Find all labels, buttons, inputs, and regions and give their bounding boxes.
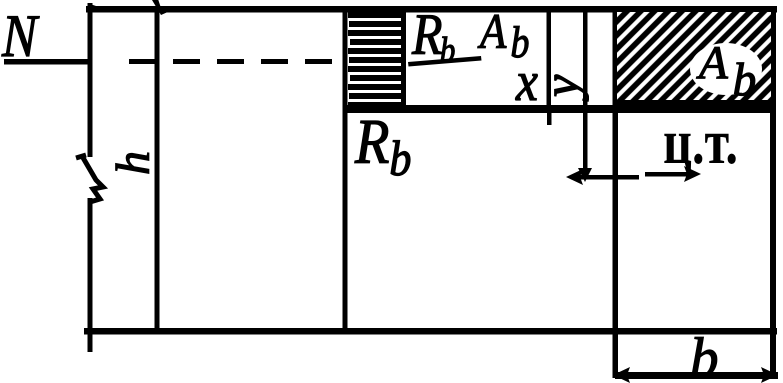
neutral axis dashed line <box>129 59 345 64</box>
svg-text:h: h <box>107 151 160 175</box>
down arrow at bottom of y dimension line <box>578 168 592 182</box>
right edge <box>770 9 776 379</box>
b dimension right arrow <box>761 367 778 383</box>
b dimension left arrow <box>613 367 630 383</box>
big label Rb below stress block <box>354 107 411 187</box>
neutral axis solid segment <box>4 59 92 65</box>
vertical line at x=585 with lower dimension extension <box>583 9 588 176</box>
vertical line at x=549 <box>547 9 552 110</box>
bottom edge <box>84 328 777 335</box>
barb at top of x=157 line <box>152 0 170 15</box>
dimension arrow line (left, with left arrowhead) <box>571 175 639 180</box>
label x <box>515 51 538 113</box>
left edge / h dimension line <box>88 3 93 157</box>
underline under Rb <box>408 56 482 67</box>
label h (rotated) <box>107 151 160 175</box>
label y (rotated) <box>533 74 589 102</box>
short stub of x=549 line below mid line <box>547 113 552 125</box>
horizontal-hatched stress block Rb <box>348 12 404 108</box>
eraser for y tail <box>589 60 611 104</box>
top edge <box>86 6 777 13</box>
inner vertical line at x=157 <box>155 9 160 331</box>
vertical line at x=615 (full height, edge of right zone) <box>613 9 619 378</box>
svg-text:y: y <box>533 74 589 102</box>
dimension arrow line (right, with right arrowhead, under ц.т.) <box>645 172 695 177</box>
mid horizontal line (bottom of stress diagram) <box>345 105 775 113</box>
h top arrow barb <box>90 4 102 11</box>
white halo behind Ab label <box>690 43 762 95</box>
right edge of hatched stress block <box>401 9 406 110</box>
svg-text:ц.т.: ц.т. <box>663 106 738 177</box>
inner vertical line at x=345 <box>343 9 348 331</box>
bottom edge of hatched area <box>613 100 775 107</box>
break mark on h line <box>76 155 103 202</box>
diagonally hatched area Ab <box>617 12 771 105</box>
label Rb (underlined, top) <box>411 3 455 71</box>
svg-text:b: b <box>690 327 719 383</box>
label Ab (top middle) <box>477 4 529 67</box>
b dimension line at bottom <box>615 372 778 379</box>
